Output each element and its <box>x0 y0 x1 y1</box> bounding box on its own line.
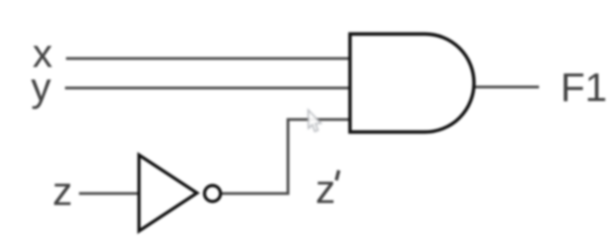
svg-text:F1: F1 <box>561 66 608 110</box>
svg-text:y: y <box>31 66 51 110</box>
svg-text:z: z <box>53 170 73 214</box>
svg-text:z: z <box>316 168 336 212</box>
